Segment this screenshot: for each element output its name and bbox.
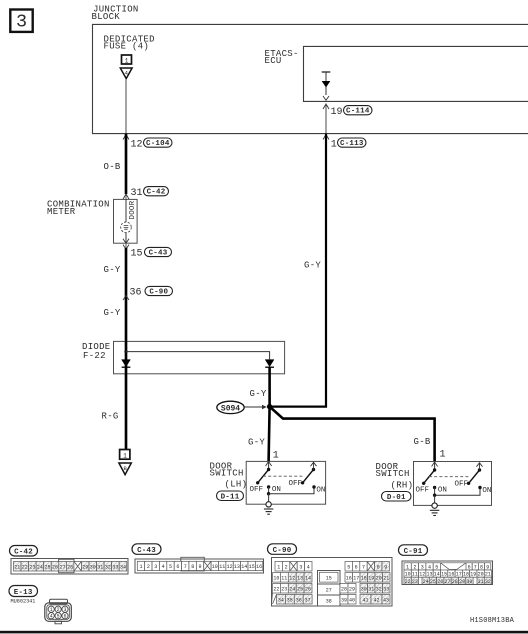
meter internal wire (125, 199, 127, 243)
svg-text:9: 9 (384, 565, 387, 571)
svg-text:6: 6 (468, 565, 471, 571)
inline connector arrow C-90 (123, 296, 129, 301)
ground RH (430, 495, 439, 515)
svg-text:19: 19 (331, 107, 343, 118)
terminal arrow 1 C-113 (323, 135, 329, 140)
svg-text:26: 26 (52, 565, 58, 571)
svg-text:20: 20 (478, 572, 484, 578)
svg-text:32: 32 (485, 579, 491, 585)
svg-text:22: 22 (273, 587, 279, 593)
svg-text:OFF: OFF (250, 486, 264, 494)
svg-text:1: 1 (406, 565, 409, 571)
svg-text:3: 3 (63, 607, 66, 613)
connector oval C-42 (144, 187, 169, 197)
combination meter box (114, 199, 138, 243)
svg-text:34: 34 (120, 565, 126, 571)
svg-text:G-Y: G-Y (250, 389, 267, 399)
svg-text:ON: ON (482, 487, 491, 495)
svg-text:30: 30 (466, 579, 472, 585)
svg-text:1: 1 (277, 565, 280, 571)
wire O-B (thick) (125, 134, 128, 195)
svg-text:31: 31 (368, 587, 374, 593)
svg-text:12: 12 (419, 572, 425, 578)
svg-text:23: 23 (412, 579, 418, 585)
svg-text:2: 2 (285, 565, 288, 571)
svg-text:33: 33 (383, 587, 389, 593)
svg-text:DOOR: DOOR (129, 200, 137, 219)
splice S094 (217, 401, 267, 413)
connector oval C-113 (338, 138, 367, 148)
junction block outline (93, 24, 528, 133)
svg-text:21: 21 (383, 576, 389, 582)
svg-text:S094: S094 (221, 404, 240, 413)
internal link wire (126, 352, 270, 360)
middle col (318, 571, 341, 607)
svg-text:18: 18 (361, 576, 367, 582)
ground LH (264, 494, 273, 515)
svg-text:OFF: OFF (455, 481, 469, 489)
svg-text:C-91: C-91 (404, 548, 423, 556)
svg-text:6: 6 (355, 565, 358, 571)
svg-text:3: 3 (421, 565, 424, 571)
svg-text:4: 4 (162, 564, 165, 570)
svg-text:23: 23 (29, 565, 35, 571)
svg-text:13: 13 (234, 564, 240, 570)
svg-text:14: 14 (305, 576, 311, 582)
svg-text:39: 39 (341, 598, 347, 604)
LH entry arrow (266, 461, 272, 466)
connector E-13 oval (9, 586, 38, 597)
svg-text:15: 15 (249, 564, 255, 570)
svg-text:1: 1 (273, 451, 279, 462)
svg-text:41: 41 (362, 598, 368, 604)
connector oval D-01 (382, 492, 412, 502)
svg-text:34: 34 (278, 598, 284, 604)
RH switch internals (416, 462, 492, 497)
svg-text:38: 38 (326, 599, 332, 605)
svg-text:O-B: O-B (104, 162, 121, 172)
door switch RH box (414, 462, 492, 506)
svg-text:29: 29 (459, 579, 465, 585)
svg-text:16: 16 (448, 572, 454, 578)
svg-text:SWITCH: SWITCH (210, 469, 244, 479)
row4 (277, 595, 391, 605)
combination meter label (47, 200, 110, 217)
row1 left (275, 562, 389, 572)
row3 (273, 584, 391, 594)
terminal arrow at C-104 (123, 135, 129, 140)
svg-text:G-Y: G-Y (104, 308, 121, 318)
svg-text:27: 27 (60, 565, 66, 571)
svg-text:14: 14 (241, 564, 247, 570)
door lamp bulb (121, 222, 132, 233)
junction node dot (267, 404, 272, 409)
svg-text:28: 28 (67, 565, 73, 571)
svg-text:19: 19 (470, 572, 476, 578)
svg-text:1: 1 (125, 57, 129, 64)
svg-text:D-01: D-01 (387, 494, 406, 502)
svg-text:19: 19 (368, 576, 374, 582)
svg-text:1: 1 (440, 450, 446, 461)
connector C-42 oval (10, 546, 38, 557)
terminal box 1 bottom (120, 450, 130, 460)
connector C-91 oval (399, 545, 428, 556)
svg-text:22: 22 (405, 579, 411, 585)
connection triangle 4 (120, 68, 132, 79)
wire G-Y meter to diode (thick) (125, 243, 127, 248)
wire node to LH switch (thick) (269, 407, 270, 461)
diode label (82, 342, 111, 361)
svg-text:24: 24 (423, 579, 429, 585)
svg-text:21: 21 (485, 572, 491, 578)
svg-text:36: 36 (296, 598, 302, 604)
connector C-43 oval (132, 544, 161, 555)
svg-text:25: 25 (44, 565, 50, 571)
svg-text:ECU: ECU (265, 56, 282, 66)
diode inside ECU (322, 72, 331, 100)
svg-text:H1S08M13BA: H1S08M13BA (470, 617, 515, 625)
wire fuse to junction block edge (thin) (125, 79, 127, 134)
connector C-91 body (402, 561, 493, 585)
svg-text:30: 30 (361, 587, 367, 593)
svg-text:15: 15 (441, 572, 447, 578)
svg-text:12: 12 (227, 564, 233, 570)
svg-text:1: 1 (331, 139, 337, 150)
connector oval C-114 (344, 106, 373, 116)
svg-text:G-Y: G-Y (248, 438, 265, 448)
diode right (265, 360, 274, 368)
svg-text:11: 11 (281, 576, 287, 582)
svg-text:13: 13 (297, 576, 303, 582)
svg-text:37: 37 (305, 598, 311, 604)
svg-text:15: 15 (131, 249, 143, 260)
row2 (273, 573, 391, 583)
svg-text:C-104: C-104 (146, 140, 170, 148)
svg-text:24: 24 (289, 587, 295, 593)
svg-text:5: 5 (169, 564, 172, 570)
svg-text:32: 32 (376, 587, 382, 593)
svg-text:4: 4 (428, 565, 431, 571)
svg-text:27: 27 (326, 588, 332, 594)
svg-text:G-B: G-B (414, 437, 431, 447)
svg-text:8: 8 (480, 565, 483, 571)
svg-text:9: 9 (198, 564, 201, 570)
svg-text:3: 3 (154, 564, 157, 570)
terminal arrow pin 15 (123, 239, 129, 244)
svg-text:24: 24 (37, 565, 43, 571)
svg-text:7: 7 (184, 564, 187, 570)
svg-text:10: 10 (273, 576, 279, 582)
svg-text:28: 28 (452, 579, 458, 585)
connector C-90 body (272, 558, 393, 607)
svg-text:21: 21 (14, 565, 20, 571)
svg-text:2: 2 (147, 564, 150, 570)
bottom border (0, 631, 528, 634)
svg-text:32: 32 (105, 565, 111, 571)
svg-text:7: 7 (362, 565, 365, 571)
svg-text:8: 8 (377, 565, 380, 571)
svg-text:12: 12 (131, 139, 143, 150)
connector oval D-11 (217, 491, 244, 501)
svg-text:FUSE (4): FUSE (4) (104, 42, 150, 52)
RH entry arrow (432, 462, 438, 467)
svg-text:(RH): (RH) (391, 480, 414, 490)
svg-text:ON: ON (272, 486, 281, 494)
svg-text:ON: ON (438, 487, 447, 495)
svg-text:26: 26 (437, 579, 443, 585)
diode left (122, 360, 131, 368)
svg-text:C-42: C-42 (147, 189, 166, 197)
connector oval C-90 (145, 286, 173, 296)
svg-text:42: 42 (373, 598, 379, 604)
svg-text:C-43: C-43 (137, 547, 156, 555)
svg-text:43: 43 (383, 598, 389, 604)
svg-text:13: 13 (426, 572, 432, 578)
svg-text:17: 17 (456, 572, 462, 578)
svg-text:9: 9 (486, 565, 489, 571)
terminal arrow 19 (323, 104, 329, 109)
connector C-90 oval (268, 544, 297, 555)
svg-text:15: 15 (326, 576, 332, 582)
terminal arrow pin 31 (123, 194, 129, 199)
svg-text:23: 23 (281, 587, 287, 593)
door switch RH labels (376, 462, 414, 491)
junction dot in diode box (124, 350, 127, 353)
svg-text:10: 10 (212, 564, 218, 570)
svg-text:12: 12 (289, 576, 295, 582)
svg-text:28: 28 (341, 587, 347, 593)
svg-text:5: 5 (435, 565, 438, 571)
svg-text:C-114: C-114 (346, 108, 370, 116)
svg-text:5: 5 (57, 614, 60, 620)
svg-text:C-90: C-90 (149, 289, 168, 297)
triangle B bottom (119, 463, 131, 475)
svg-text:METER: METER (47, 207, 76, 217)
connector C-42 body (11, 559, 128, 575)
door switch LH box (246, 461, 325, 504)
svg-text:5: 5 (347, 565, 350, 571)
svg-text:31: 31 (478, 579, 484, 585)
dedicated fuse label (104, 35, 155, 52)
svg-text:1: 1 (139, 564, 142, 570)
wire diode to splice node (thick) (268, 367, 271, 406)
svg-text:R-G: R-G (102, 411, 119, 421)
connector oval C-104 (144, 138, 173, 148)
svg-text:G-Y: G-Y (304, 261, 321, 271)
svg-text:OFF: OFF (289, 480, 303, 488)
svg-text:C-43: C-43 (149, 250, 168, 258)
svg-text:F-22: F-22 (83, 351, 106, 361)
svg-text:2: 2 (57, 607, 60, 613)
svg-text:10: 10 (405, 572, 411, 578)
connector C-43 body (135, 557, 264, 573)
svg-text:30: 30 (90, 565, 96, 571)
svg-text:33: 33 (112, 565, 118, 571)
svg-text:31: 31 (131, 188, 143, 199)
junction block label (92, 5, 139, 22)
svg-text:1: 1 (50, 607, 53, 613)
page number box 3 (10, 10, 32, 33)
svg-text:4: 4 (307, 565, 310, 571)
svg-text:4: 4 (124, 70, 128, 77)
svg-text:C-42: C-42 (14, 549, 33, 557)
svg-text:25: 25 (297, 587, 303, 593)
svg-text:36: 36 (130, 288, 142, 299)
svg-text:22: 22 (22, 565, 28, 571)
svg-text:C-113: C-113 (340, 140, 364, 148)
svg-text:BLOCK: BLOCK (92, 12, 121, 22)
svg-text:E-13: E-13 (14, 589, 33, 597)
svg-text:ON: ON (316, 487, 325, 495)
svg-text:18: 18 (463, 572, 469, 578)
svg-text:31: 31 (97, 565, 103, 571)
svg-text:29: 29 (82, 565, 88, 571)
svg-text:C-90: C-90 (273, 547, 292, 555)
svg-text:8: 8 (191, 564, 194, 570)
wire ETACS down (thick) (270, 134, 326, 407)
svg-text:11: 11 (219, 564, 225, 570)
svg-text:6: 6 (63, 614, 66, 620)
svg-text:17: 17 (353, 576, 359, 582)
svg-text:14: 14 (434, 572, 440, 578)
svg-text:20: 20 (376, 576, 382, 582)
svg-text:7: 7 (474, 565, 477, 571)
svg-text:29: 29 (349, 587, 355, 593)
svg-text:6: 6 (176, 564, 179, 570)
svg-text:OFF: OFF (416, 487, 430, 495)
svg-text:3: 3 (16, 12, 27, 33)
connector E-13 body (45, 599, 72, 624)
connector oval C-43 (145, 247, 172, 257)
svg-text:D-11: D-11 (221, 493, 240, 501)
svg-text:40: 40 (349, 598, 355, 604)
wire through diode box (thick) (125, 341, 128, 450)
svg-text:SWITCH: SWITCH (376, 469, 410, 479)
svg-text:MU802341: MU802341 (11, 599, 36, 605)
LH switch internals (250, 461, 326, 495)
svg-text:G-Y: G-Y (104, 265, 121, 275)
svg-text:3: 3 (299, 565, 302, 571)
svg-text:35: 35 (287, 598, 293, 604)
svg-text:27: 27 (444, 579, 450, 585)
svg-text:16: 16 (256, 564, 262, 570)
door switch LH labels (210, 461, 248, 489)
diode box F-22 (114, 341, 285, 373)
svg-text:16: 16 (346, 576, 352, 582)
ETACS-ECU box outline (304, 46, 528, 101)
wire node to RH switch (thick) (270, 407, 435, 462)
svg-text:11: 11 (412, 572, 418, 578)
svg-text:1: 1 (123, 452, 127, 459)
ETACS-ECU label (265, 49, 299, 66)
svg-text:26: 26 (305, 587, 311, 593)
svg-text:2: 2 (413, 565, 416, 571)
svg-text:4: 4 (50, 614, 53, 620)
fuse number box 1 (122, 55, 132, 64)
svg-text:25: 25 (430, 579, 436, 585)
svg-text:(LH): (LH) (225, 479, 248, 489)
